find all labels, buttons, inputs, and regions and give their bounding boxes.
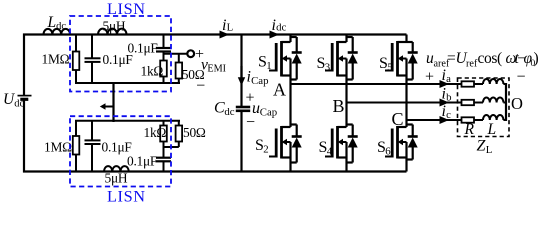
diode D6 (body diode of S6) (407, 125, 418, 160)
label ic (442, 103, 452, 121)
wire 0.1uF bottom-left top lead (91, 121, 93, 141)
svg-text:Cap: Cap (251, 75, 268, 87)
capacitor 0.1uF bottom-left (85, 140, 101, 144)
svg-text:cos(: cos( (478, 50, 502, 67)
wire 0.1uF branch top lead (91, 35, 93, 59)
label Ldc (47, 14, 67, 32)
arrow iCap (238, 66, 245, 86)
wire 1M bottom branch top lead (75, 121, 77, 136)
wire 1k bottom lead (163, 77, 165, 85)
inductor LL phase a (483, 79, 503, 84)
wire left rail upper (23, 34, 25, 96)
capacitor 0.1uF bottom-right (156, 158, 171, 162)
battery Udc (18, 96, 32, 100)
resistor 50 bottom (176, 126, 183, 142)
resistor 50 top (176, 63, 183, 79)
wire 50 bottom top lead (178, 121, 180, 126)
wire LL to bus phase b (503, 102, 506, 104)
wire 50 ohm bottom lead (178, 79, 180, 85)
resistor 1M bottom (73, 136, 80, 155)
arrow iL (220, 31, 230, 39)
label idc (272, 17, 287, 34)
arrow ia (440, 80, 450, 88)
label uaref formula (426, 50, 539, 70)
svg-text:A: A (273, 80, 286, 100)
label S4 (319, 139, 333, 158)
resistor 1M top (73, 52, 80, 71)
resistor RL phase a (462, 81, 475, 86)
svg-text:ref: ref (466, 59, 478, 70)
arrow idc (270, 31, 280, 39)
wire 1M branch top lead (75, 35, 77, 52)
inductor 5uH top (98, 29, 127, 35)
svg-text:O: O (511, 94, 523, 113)
svg-text:0.1μF: 0.1μF (128, 40, 158, 55)
svg-text:3: 3 (325, 62, 330, 74)
svg-text:EMI: EMI (207, 64, 226, 75)
svg-text:6: 6 (385, 146, 391, 158)
svg-text:1kΩ: 1kΩ (141, 63, 164, 78)
svg-text:R: R (464, 121, 475, 138)
terminal vEMI (187, 50, 194, 57)
svg-text:+: + (425, 69, 434, 86)
label iL (222, 17, 233, 34)
svg-text:1kΩ: 1kΩ (144, 125, 167, 140)
svg-text:5μH: 5μH (103, 19, 126, 34)
label ia (442, 67, 452, 85)
wire inverter leg 3 (405, 35, 407, 172)
wire Cdc upper lead (240, 35, 242, 107)
diode D5 (body diode of S5) (407, 42, 418, 80)
diode D2 (body diode of S2) (291, 125, 302, 163)
svg-text:4: 4 (327, 146, 333, 158)
wire 1M branch bottom lead (75, 70, 77, 84)
wire 1M bottom lower lead (75, 155, 77, 172)
wire vEMI tap (164, 53, 188, 55)
label ZL (477, 138, 493, 157)
transistor S1 (269, 41, 291, 77)
svg-text:B: B (333, 96, 345, 116)
diode D3 (body diode of S3) (347, 37, 358, 80)
svg-text:dc: dc (224, 106, 234, 118)
wire cap bottom-right lower lead (163, 161, 165, 171)
wire 1k bottom branch top lead (163, 121, 165, 126)
svg-text:dc: dc (276, 21, 286, 33)
svg-text:1MΩ: 1MΩ (42, 52, 70, 67)
svg-text:L: L (47, 14, 57, 31)
capacitor 0.1uF top-left (85, 58, 101, 62)
svg-text:c: c (446, 109, 451, 121)
label S3 (317, 55, 331, 74)
wire EMI branch top lead (163, 35, 165, 49)
wire 50 bottom lower lead (178, 142, 180, 148)
label iCap (247, 68, 269, 87)
svg-text:0.1μF: 0.1μF (102, 139, 132, 154)
svg-text:−: − (246, 114, 255, 131)
wire ground link (112, 82, 114, 122)
wire cap to 1k resistor (163, 52, 165, 61)
wire inverter leg 2 (345, 35, 347, 172)
load box ZL (dashed) (458, 78, 510, 137)
wire LISN2 internal top rail (75, 120, 180, 122)
transistor S6 (385, 126, 407, 159)
wire LL to bus phase a (503, 83, 506, 85)
transistor S4 (325, 126, 347, 159)
svg-text:L: L (486, 144, 493, 156)
label S1 (258, 54, 272, 73)
arrow ic (440, 116, 450, 124)
resistor 1k top (160, 61, 167, 77)
arrow ground link (100, 103, 114, 110)
wire 0.1uF bottom-left lower lead (91, 144, 93, 172)
svg-text:1: 1 (266, 60, 271, 72)
svg-text:1MΩ: 1MΩ (44, 139, 72, 154)
wire left rail lower (23, 99, 25, 172)
wire 0.1uF branch bottom lead (91, 62, 93, 84)
wire phase A (291, 83, 462, 85)
wire RL to LL phase b (474, 102, 483, 104)
label ib (442, 85, 452, 103)
wire load neutral bus (505, 83, 507, 121)
transistor S3 (325, 41, 347, 77)
svg-text:LISN: LISN (107, 187, 146, 206)
svg-text:2: 2 (263, 144, 268, 156)
inductor 5uH bottom (104, 166, 129, 171)
label S5 (379, 55, 393, 74)
inductor Ldc (44, 29, 71, 35)
wire bottom rail (23, 170, 407, 172)
resistor RL phase c (462, 117, 475, 122)
resistor 1k bottom (160, 126, 167, 142)
label S6 (377, 139, 391, 158)
inductor LL phase c (483, 115, 503, 120)
LISN box bottom (dashed blue) (70, 116, 171, 186)
svg-text:5: 5 (387, 62, 392, 74)
svg-text:C: C (392, 109, 404, 129)
wire RL to LL phase a (474, 83, 483, 85)
svg-text:LISN: LISN (107, 0, 146, 18)
wire inverter leg 1 (289, 35, 291, 172)
svg-text:=: = (447, 50, 456, 67)
svg-text:dc: dc (56, 21, 66, 32)
svg-text:L: L (487, 121, 497, 138)
capacitor Cdc (236, 107, 250, 111)
LISN box top (dashed blue) (70, 16, 171, 92)
label vEMI (201, 56, 227, 74)
svg-text:Cap: Cap (260, 107, 277, 119)
svg-text:−: − (516, 69, 525, 86)
wire LISN1 internal bottom rail (75, 82, 180, 84)
svg-text:dc: dc (14, 98, 24, 109)
resistor RL phase b (462, 100, 475, 105)
wire bottom tap (164, 146, 179, 148)
label uCap (252, 100, 277, 119)
svg-text:b: b (446, 92, 451, 104)
wire 1k to cap bottom (163, 142, 165, 158)
transistor S5 (385, 41, 407, 77)
svg-text:a: a (446, 73, 451, 85)
arrow ib (440, 99, 450, 107)
wire Cdc lower lead (240, 111, 242, 172)
svg-text:0.1μF: 0.1μF (127, 153, 157, 168)
wire phase C (407, 119, 462, 121)
label Cdc (214, 100, 235, 118)
svg-text:50Ω: 50Ω (183, 125, 206, 140)
svg-text:C: C (214, 100, 225, 117)
diode D4 (body diode of S4) (347, 125, 358, 163)
svg-text:): ) (534, 50, 539, 67)
wire LL to bus phase c (503, 119, 506, 121)
wire 50 ohm top lead (178, 54, 180, 63)
label S2 (255, 137, 269, 156)
wire phase B (347, 102, 462, 104)
transistor S2 (269, 126, 291, 159)
label Udc (3, 91, 24, 109)
diode D1 (body diode of S1) (291, 37, 302, 80)
svg-text:L: L (227, 21, 234, 33)
wire top rail (23, 33, 407, 35)
wire RL to LL phase c (474, 119, 483, 121)
inductor LL phase b (483, 98, 503, 103)
svg-text:−: − (196, 77, 205, 94)
svg-text:5μH: 5μH (105, 171, 128, 186)
capacitor 0.1uF top-right (156, 48, 171, 52)
